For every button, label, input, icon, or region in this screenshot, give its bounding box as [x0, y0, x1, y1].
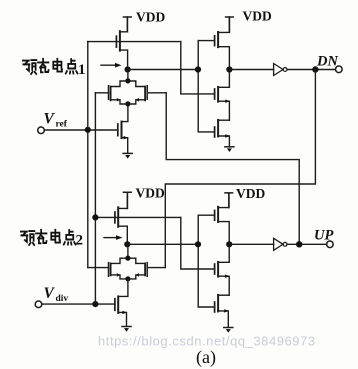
node output2 dot: [226, 241, 232, 247]
svg-text:V: V: [44, 111, 56, 128]
node DN dot: [312, 66, 318, 72]
ground symbol G4: [224, 328, 233, 333]
svg-text:VDD: VDD: [243, 9, 272, 24]
node Vdiv-bus junction dot: [92, 214, 98, 220]
transmission gate TG2: [88, 244, 166, 279]
wire inverter2 to UP terminal: [287, 243, 327, 245]
wire Vref vertical (x=88, top gate bus down to bottom TG left gate): [87, 42, 89, 268]
label (a) caption: [196, 347, 216, 368]
inverter U1: [274, 64, 287, 76]
terminal DN output: [336, 66, 343, 73]
svg-text:V: V: [44, 285, 56, 302]
VDD label bottom-left: [136, 186, 165, 201]
wire node-coupling vertical K1 (x=198.2): [198, 41, 214, 132]
watermark text: [98, 334, 316, 349]
nmos MN3 top stack bottom-half: [215, 244, 230, 295]
wire node1 to right branch: [128, 69, 198, 71]
wire TG1 bottom to N1 drain: [122, 104, 128, 122]
label digit 1 of precharge-node-1: [78, 62, 86, 78]
annotation arrow to precharge node 1: [101, 63, 122, 68]
wire Vref gate bus (y=41.6 from x=88 to x=181): [88, 41, 181, 43]
nmos MN2 bottom stack: [215, 120, 230, 147]
svg-text:div: div: [56, 294, 69, 304]
wire UP feedback (TG1 right gate down, right, down to UP node): [166, 93, 299, 245]
node Vref junction dot: [85, 127, 91, 133]
svg-text:VDD: VDD: [236, 186, 265, 201]
wire node-coupling vertical K2 (x=198.2): [198, 215, 214, 307]
pmos M3 precharge bottom-left: [115, 192, 128, 244]
svg-text:UP: UP: [314, 228, 333, 244]
wire output1 to inverter: [229, 69, 273, 71]
label DN: [316, 54, 338, 70]
wire Vdiv gate bus (y=217.4 from x=95.4 to x=181): [95, 216, 180, 218]
VDD power symbol top-left: [123, 17, 131, 32]
wire TG2 bottom to N2 drain: [118, 279, 128, 297]
node TG2 top junction dot: [125, 256, 130, 261]
label Vdiv: [44, 285, 69, 304]
terminal UP output: [327, 241, 334, 248]
label UP: [314, 228, 333, 244]
pmos M2 top-right: [198, 17, 229, 70]
wire Vdiv bus drop to MN3 gate (x=181): [181, 217, 215, 269]
pmos M1 precharge top-left: [116, 17, 127, 70]
ground symbol G2: [225, 147, 234, 152]
wire DN feedback (down, left, down to TG2 right gate): [165, 70, 315, 268]
node dot node1-K1: [195, 66, 201, 72]
label Vref: [44, 111, 68, 130]
ground symbol G1: [123, 153, 132, 158]
wire Vref bus drop to MN1 gate (x=181): [181, 42, 215, 94]
terminal Vdiv input: [35, 301, 42, 308]
annotation arrow to precharge node 2: [104, 235, 123, 240]
svg-text:(a): (a): [196, 347, 216, 368]
nmos MN4 bottom stack bottom-half: [215, 295, 230, 327]
nmos N1 discharge top-left: [118, 122, 128, 154]
node dot node2-K2: [195, 241, 201, 247]
svg-text:1: 1: [78, 62, 86, 78]
label precharge-node-2 (hanzi drawn as paths): [21, 230, 76, 245]
VDD label bottom-right: [236, 186, 265, 201]
wire Vdiv vertical (x=95.4 from TG1 left gate down to Vdiv line): [94, 93, 96, 304]
svg-text:VDD: VDD: [136, 186, 165, 201]
VDD label top-right: [243, 9, 272, 24]
wire Vref input line: [44, 129, 117, 131]
node TG1 bottom junction dot: [125, 101, 130, 106]
node UP dot: [296, 241, 302, 247]
VDD power symbol bottom-left: [123, 192, 131, 208]
node TG1 top junction dot: [125, 78, 130, 83]
nmos MN1 top stack: [215, 70, 230, 121]
svg-text:ref: ref: [56, 120, 68, 130]
inverter U2: [274, 238, 287, 250]
wire output2 to inverter: [229, 243, 273, 245]
label precharge-node-1 (hanzi drawn as paths): [23, 59, 78, 74]
ground symbol G3: [122, 327, 131, 332]
VDD power symbol bottom-right: [225, 193, 233, 208]
node TG2 bottom junction dot: [125, 276, 130, 281]
pmos M4 bottom-right: [198, 193, 229, 244]
VDD label top-left: [136, 10, 165, 25]
wire inverter1 to DN terminal: [287, 69, 336, 71]
label digit 2 of precharge-node-2: [76, 233, 84, 249]
node precharge point 1 (dot): [125, 66, 131, 72]
wire node2 to right branch: [127, 243, 198, 245]
VDD power symbol top-right: [226, 17, 234, 32]
svg-text:2: 2: [76, 233, 84, 249]
terminal Vref input: [38, 127, 45, 134]
nmos N2 discharge bottom-left: [115, 296, 127, 326]
transmission gate TG1: [95, 70, 166, 105]
svg-text:VDD: VDD: [136, 10, 165, 25]
svg-text:DN: DN: [316, 54, 338, 70]
wire Vdiv input line: [42, 303, 115, 305]
node precharge point 2 (dot): [124, 241, 130, 247]
node Vdiv junction dot: [92, 301, 98, 307]
node output1 dot: [226, 66, 232, 72]
